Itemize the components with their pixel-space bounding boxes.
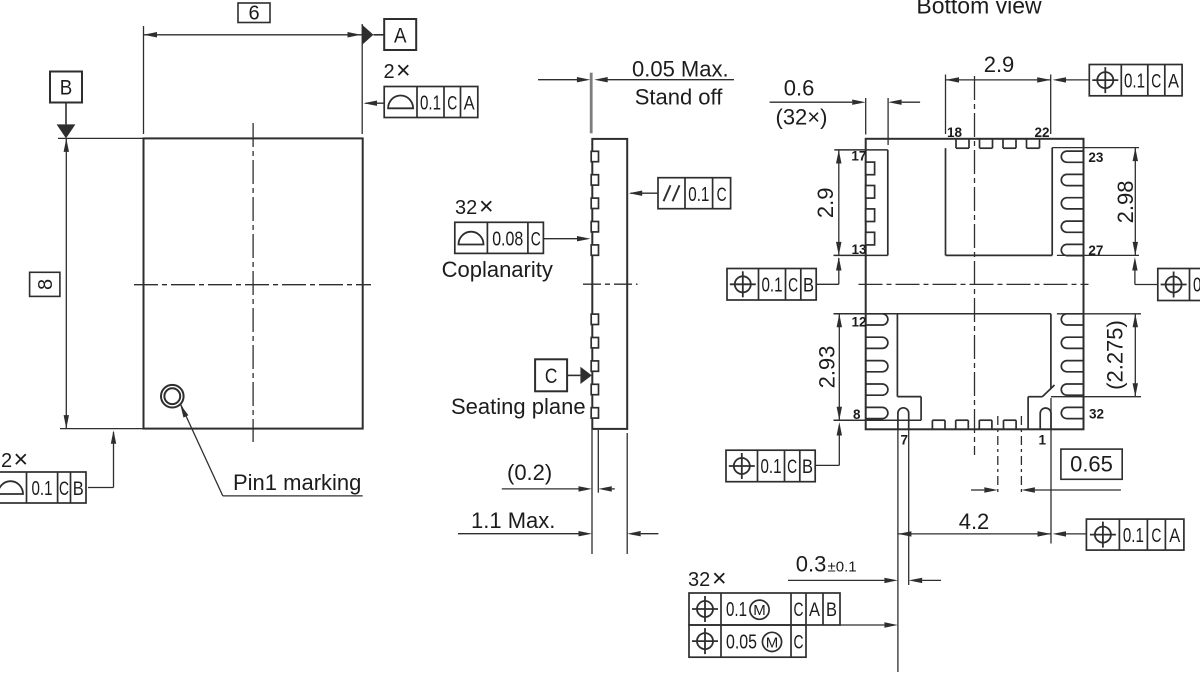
svg-text:B: B [803, 276, 814, 297]
svg-text:0.1: 0.1 [762, 275, 783, 297]
svg-text:32: 32 [688, 569, 710, 591]
svg-text:C: C [531, 230, 541, 251]
svg-text:Pin1 marking: Pin1 marking [233, 470, 361, 495]
svg-text:×: × [396, 57, 411, 85]
svg-text:1: 1 [1039, 433, 1047, 448]
svg-text:×: × [712, 565, 727, 593]
svg-text:1.1 Max.: 1.1 Max. [471, 508, 555, 533]
svg-text:27: 27 [1088, 243, 1103, 258]
svg-text:C: C [717, 185, 727, 206]
svg-text:A: A [1169, 526, 1180, 547]
svg-text:0.1: 0.1 [1123, 525, 1144, 547]
svg-text:0.6: 0.6 [784, 76, 815, 101]
svg-text:(2.275): (2.275) [1103, 320, 1128, 390]
svg-text:2.9: 2.9 [813, 188, 838, 219]
svg-text:17: 17 [851, 149, 866, 164]
svg-text:0.1: 0.1 [761, 456, 782, 478]
svg-text:7: 7 [901, 433, 909, 448]
svg-text:C: C [1151, 526, 1161, 547]
svg-text:C: C [1151, 71, 1161, 92]
svg-text:C: C [447, 94, 457, 115]
svg-text:Bottom view: Bottom view [916, 0, 1042, 19]
svg-text:Stand off: Stand off [635, 85, 724, 110]
svg-text:2: 2 [384, 61, 395, 83]
svg-text:B: B [60, 77, 73, 100]
svg-text:2.9: 2.9 [984, 52, 1015, 77]
svg-text:32: 32 [455, 197, 477, 219]
svg-text:18: 18 [947, 125, 963, 140]
svg-text:C: C [545, 365, 558, 388]
svg-text:0.65: 0.65 [1070, 452, 1113, 477]
svg-text:12: 12 [852, 315, 867, 330]
svg-text:2: 2 [1, 450, 12, 472]
svg-text:0.3: 0.3 [796, 552, 827, 577]
svg-text:(32×): (32×) [776, 105, 828, 130]
svg-text:(0.2): (0.2) [507, 460, 552, 485]
svg-text:±0.1: ±0.1 [828, 559, 857, 576]
svg-text:0.1: 0.1 [688, 184, 709, 206]
svg-text:Seating plane: Seating plane [451, 394, 586, 419]
svg-text:8: 8 [35, 279, 57, 290]
svg-text:B: B [826, 600, 837, 621]
svg-text:8: 8 [853, 407, 861, 422]
svg-text:A: A [394, 25, 407, 48]
svg-text:23: 23 [1088, 150, 1104, 165]
svg-text:4.2: 4.2 [959, 509, 990, 534]
svg-text:C: C [794, 632, 804, 653]
svg-text:×: × [479, 193, 494, 221]
svg-text:M: M [753, 602, 766, 619]
svg-text:0.1: 0.1 [32, 478, 53, 500]
svg-text:C: C [787, 457, 797, 478]
svg-text:0.05 Max.: 0.05 Max. [632, 57, 729, 82]
svg-text:22: 22 [1035, 125, 1050, 140]
svg-text:C: C [59, 479, 69, 500]
svg-text:0.08: 0.08 [492, 229, 523, 251]
svg-text:6: 6 [248, 3, 259, 25]
svg-text:A: A [809, 600, 820, 621]
svg-text:B: B [802, 457, 813, 478]
svg-text:0.1: 0.1 [1193, 275, 1200, 297]
svg-text:0.05: 0.05 [726, 631, 757, 653]
svg-text:B: B [73, 479, 84, 500]
svg-text:13: 13 [852, 242, 868, 257]
svg-text:0.1: 0.1 [420, 93, 441, 115]
svg-text:2.93: 2.93 [815, 346, 840, 389]
svg-text:2.98: 2.98 [1113, 180, 1138, 223]
svg-text:M: M [766, 634, 779, 651]
svg-text:C: C [788, 276, 798, 297]
svg-text:A: A [1168, 71, 1179, 92]
svg-text:32: 32 [1089, 407, 1104, 422]
svg-text:×: × [14, 446, 29, 474]
svg-text:A: A [464, 94, 475, 115]
svg-text:C: C [794, 600, 804, 621]
svg-text:0.1: 0.1 [726, 599, 747, 621]
svg-text:0.1: 0.1 [1124, 70, 1145, 92]
svg-text:Coplanarity: Coplanarity [442, 257, 553, 282]
